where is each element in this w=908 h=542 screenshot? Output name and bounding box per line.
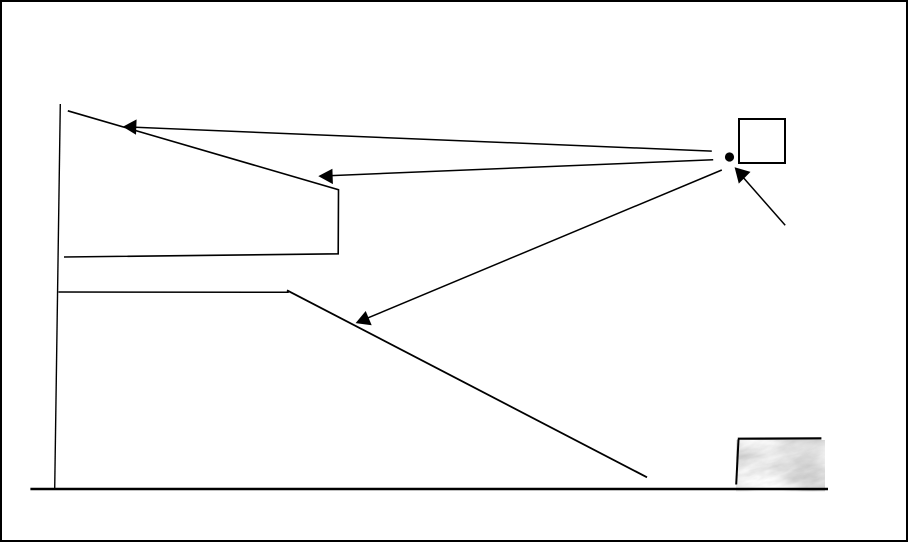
- ray 3 shaft (to ramp slope): [368, 170, 722, 318]
- ramp slope line: [287, 290, 647, 477]
- ray 3 arrowhead: [356, 311, 372, 325]
- ramp shape (lower obstacle) horizontal top: [59, 291, 289, 293]
- source dot: [725, 152, 734, 161]
- wedge shape (upper obstacle): [64, 111, 339, 257]
- ray 1 arrowhead: [123, 119, 137, 134]
- ray 2 arrowhead: [318, 169, 333, 184]
- ray 2 shaft (to wedge corner): [332, 160, 714, 176]
- wall vertical line (left): [55, 104, 61, 489]
- marble block left edge: [736, 439, 738, 484]
- ray 1 shaft (to upper wedge surface): [136, 127, 712, 151]
- pointer arrow shaft (to the dot, from lower right): [743, 177, 785, 225]
- pointer arrowhead: [735, 167, 751, 183]
- ground line: [30, 488, 828, 490]
- square box (top right): [739, 119, 785, 163]
- marble block top edge: [738, 437, 822, 440]
